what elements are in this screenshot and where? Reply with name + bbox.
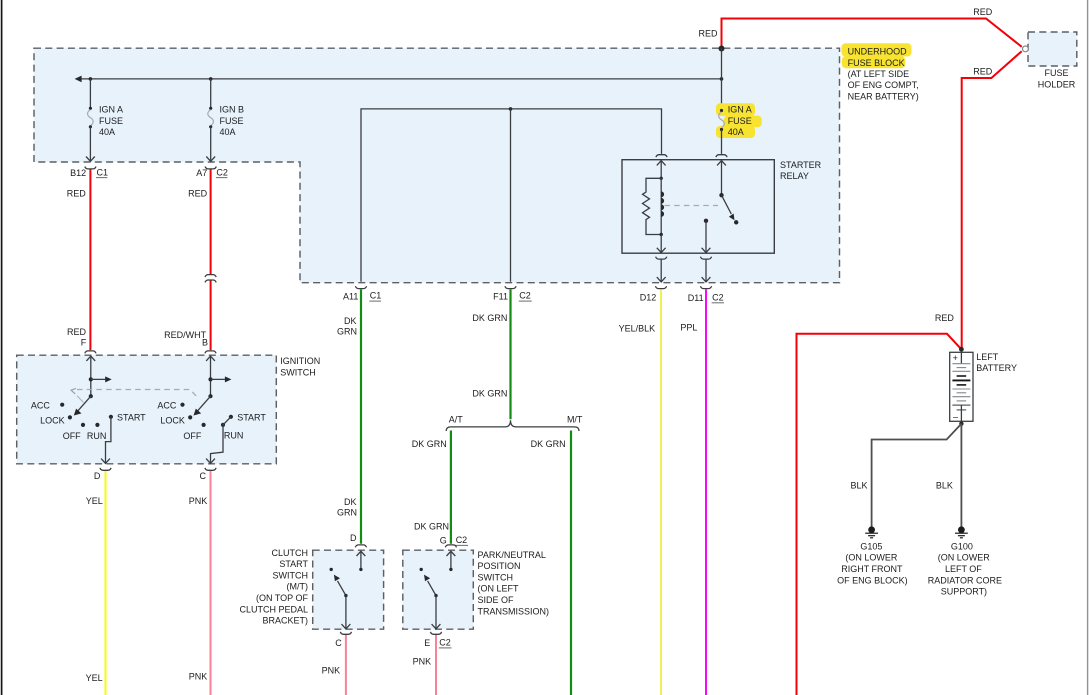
svg-text:PARK/NEUTRAL: PARK/NEUTRAL	[478, 550, 546, 560]
arrowhead at left end of bus	[75, 76, 82, 83]
svg-text:LEFT OF: LEFT OF	[945, 564, 982, 574]
wire RED/WHT from A7 to ignition switch B	[210, 169, 212, 274]
connector A7 C2 at fuse block edge	[196, 167, 228, 179]
contact OFF (pole 2)	[202, 423, 206, 427]
svg-text:CLUTCH: CLUTCH	[271, 548, 308, 558]
contact RUN (pole 2)	[221, 423, 225, 427]
svg-text:YEL: YEL	[86, 496, 103, 506]
fuse IGN B 40A	[206, 79, 244, 161]
svg-text:(ON TOP OF: (ON TOP OF	[256, 593, 309, 603]
svg-text:C2: C2	[456, 535, 468, 545]
svg-text:M/T: M/T	[567, 414, 583, 424]
svg-text:PNK: PNK	[413, 657, 432, 667]
ignition switch box	[17, 355, 277, 464]
splice brace A/T vs M/T	[446, 420, 579, 431]
svg-text:A/T: A/T	[449, 414, 464, 424]
left pole feed dot and arrow	[89, 377, 93, 381]
relay coil branch terminal arrow	[657, 161, 666, 166]
battery plus terminal stem	[960, 352, 962, 363]
relay switch pivot dot	[719, 193, 723, 197]
relay coil winding	[660, 178, 662, 234]
svg-text:PNK: PNK	[322, 665, 341, 675]
node dot where RED riser meets fuse block edge	[719, 46, 725, 52]
svg-text:G105: G105	[860, 541, 882, 551]
terminal C of clutch switch	[340, 632, 351, 634]
svg-text:BRACKET): BRACKET)	[262, 616, 308, 626]
contact START (pole 1)	[109, 415, 113, 419]
connector D12 at fuse block edge	[655, 286, 666, 288]
svg-text:D12: D12	[640, 292, 657, 302]
svg-text:LOCK: LOCK	[40, 416, 65, 426]
relay switch terminal arrow	[717, 161, 726, 166]
svg-text:RED: RED	[698, 29, 718, 39]
battery negative junction dot	[959, 422, 963, 426]
battery plates	[952, 363, 970, 365]
ganged linkage (dashed)	[77, 390, 199, 399]
svg-text:START: START	[279, 559, 308, 569]
battery minus stem	[960, 405, 962, 424]
svg-text:IGNITION: IGNITION	[280, 356, 320, 366]
connector A11 C1 at fuse block edge	[355, 286, 366, 288]
svg-text:A7: A7	[196, 168, 207, 178]
svg-text:SWITCH: SWITCH	[273, 570, 309, 580]
svg-text:RIGHT FRONT: RIGHT FRONT	[841, 564, 903, 574]
wire PNK from C	[210, 471, 212, 695]
junction dot coil bottom	[660, 233, 663, 236]
svg-text:GRN: GRN	[337, 327, 357, 337]
svg-text:OF ENG BLOCK): OF ENG BLOCK)	[837, 575, 908, 585]
svg-text:PPL: PPL	[680, 322, 697, 332]
wire: RED battery positive to lower circuit	[797, 334, 962, 695]
wire DK GRN from F11 to splice	[509, 289, 511, 419]
svg-text:E: E	[424, 638, 430, 648]
wire: main feed bus inside fuse block	[76, 78, 722, 80]
svg-text:IGN A: IGN A	[99, 105, 123, 115]
svg-text:RED: RED	[188, 188, 208, 198]
contact ACC (pole 2)	[180, 403, 184, 407]
svg-text:B: B	[202, 338, 208, 348]
svg-text:ACC: ACC	[31, 401, 51, 411]
svg-text:40A: 40A	[220, 127, 236, 137]
page right border	[1087, 0, 1089, 695]
contact LOCK (pole 2)	[188, 415, 192, 419]
page left border	[1, 0, 3, 695]
svg-text:40A: 40A	[728, 127, 744, 137]
svg-text:DK GRN: DK GRN	[472, 388, 507, 398]
starter relay box	[622, 160, 774, 254]
svg-text:FUSE: FUSE	[99, 116, 123, 126]
svg-text:RED: RED	[973, 7, 993, 17]
connector B12 C1 at fuse block edge	[70, 167, 108, 179]
svg-text:D: D	[350, 533, 357, 543]
svg-text:IGN B: IGN B	[220, 105, 245, 115]
relay switch moving contact dot	[734, 220, 738, 224]
relay switch output	[705, 221, 707, 253]
svg-text:LOCK: LOCK	[160, 416, 185, 426]
junction dot bus / IGN A fuse tap	[89, 77, 93, 81]
svg-text:YEL/BLK: YEL/BLK	[619, 323, 656, 333]
wire YEL from D	[105, 471, 107, 695]
svg-text:G100: G100	[951, 541, 973, 551]
svg-text:FUSE: FUSE	[728, 116, 752, 126]
wire PNK from park/neutral switch	[435, 635, 437, 695]
resistor (parallel with coil)	[643, 178, 662, 234]
connector cups below relay box	[656, 257, 667, 259]
fuse IGN A 40A (relay feed, highlighted)	[716, 103, 762, 154]
svg-text:C2: C2	[216, 167, 228, 177]
connector F11 C2 at fuse block edge	[505, 286, 516, 288]
svg-text:RED: RED	[935, 313, 955, 323]
svg-text:F11: F11	[493, 291, 508, 301]
svg-text:HOLDER: HOLDER	[1038, 80, 1076, 90]
label UNDERHOOD FUSE BLOCK (highlighted)	[842, 43, 912, 56]
svg-text:BLK: BLK	[936, 480, 953, 490]
svg-text:NEAR BATTERY): NEAR BATTERY)	[848, 91, 919, 101]
wire DK GRN A/T branch to park/neutral switch	[450, 431, 452, 544]
mechanical linkage (dashed) coil to blade	[665, 205, 719, 207]
svg-text:RELAY: RELAY	[780, 171, 809, 181]
fuse IGN A 40A (left)	[86, 79, 123, 161]
svg-text:OFF: OFF	[183, 431, 201, 441]
terminal C exit	[205, 468, 216, 470]
park/neutral switch output	[435, 596, 437, 629]
junction dot bus / IGN B fuse tap	[209, 77, 213, 81]
wire BLK to G100	[960, 424, 962, 527]
svg-text:F: F	[81, 338, 87, 348]
battery positive junction dot	[959, 347, 964, 352]
junction dot coil feed / F11 drop	[509, 107, 513, 111]
contact ACC (pole 1)	[60, 403, 64, 407]
ground G105	[865, 526, 878, 537]
ground G100	[955, 526, 968, 537]
junction dot bus / IGN A(relay) fuse tap	[720, 77, 724, 81]
svg-text:START: START	[237, 412, 266, 422]
svg-text:C2: C2	[519, 291, 531, 301]
svg-text:TRANSMISSION): TRANSMISSION)	[478, 606, 550, 616]
svg-text:BATTERY: BATTERY	[976, 363, 1017, 373]
right output START+RUN to C	[211, 417, 231, 463]
wire PNK from clutch switch	[345, 635, 347, 695]
svg-text:BLK: BLK	[850, 480, 867, 490]
svg-text:B12: B12	[70, 168, 86, 178]
svg-text:–: –	[953, 412, 958, 422]
svg-text:40A: 40A	[99, 127, 115, 137]
svg-text:PNK: PNK	[189, 672, 208, 682]
fuse holder connector pin circle	[1023, 46, 1029, 52]
svg-text:D: D	[94, 471, 101, 481]
wire: F11 drop	[510, 109, 512, 282]
svg-text:A11: A11	[343, 291, 358, 301]
left pole pivot dot	[89, 394, 93, 398]
wire DK GRN from A11 to clutch switch	[360, 289, 362, 543]
svg-text:C2: C2	[712, 292, 724, 302]
svg-text:(AT LEFT SIDE: (AT LEFT SIDE	[848, 69, 910, 79]
wire RED from B12 to ignition switch F	[89, 169, 91, 350]
svg-text:ACC: ACC	[157, 401, 177, 411]
svg-text:+: +	[953, 353, 958, 363]
terminal D exit	[100, 468, 111, 470]
clutch switch output	[345, 596, 347, 629]
svg-text:UNDERHOOD: UNDERHOOD	[848, 47, 908, 57]
wire: RED battery feed riser above fuse block	[722, 19, 1022, 48]
svg-text:C2: C2	[439, 638, 451, 648]
left battery box	[950, 352, 973, 421]
svg-text:FUSE: FUSE	[220, 116, 244, 126]
connector D11 C2 at fuse block edge	[700, 286, 711, 288]
svg-text:DK GRN: DK GRN	[531, 439, 566, 449]
svg-text:DK GRN: DK GRN	[472, 313, 507, 323]
svg-text:RED/WHT: RED/WHT	[164, 330, 206, 340]
svg-text:RED: RED	[973, 66, 993, 76]
wire: RED from fuse holder down right side	[962, 51, 1022, 349]
connector hat at relay terminal 30	[716, 155, 727, 157]
svg-text:SWITCH: SWITCH	[478, 572, 514, 582]
svg-text:G: G	[440, 535, 447, 545]
svg-text:RED: RED	[67, 188, 87, 198]
svg-text:RUN: RUN	[224, 430, 244, 440]
svg-text:RADIATOR CORE: RADIATOR CORE	[928, 575, 1002, 585]
svg-text:FUSE: FUSE	[1044, 68, 1068, 78]
right blade to LOCK	[197, 396, 210, 411]
wire DK GRN M/T branch	[570, 431, 572, 695]
right pole feed dot and arrow	[208, 377, 212, 381]
svg-text:STARTER: STARTER	[780, 160, 822, 170]
terminal E C2 of park/neutral switch	[430, 632, 441, 634]
svg-text:C1: C1	[97, 167, 109, 177]
svg-text:GRN: GRN	[337, 507, 357, 517]
park/neutral switch blade	[428, 581, 436, 596]
wire PPL from D11	[705, 289, 707, 695]
wire YEL/BLK from D12	[660, 289, 662, 695]
svg-text:(ON LEFT: (ON LEFT	[478, 584, 520, 594]
clutch switch blade	[338, 581, 346, 596]
left output from START to D	[106, 417, 111, 463]
coil output to relay edge	[660, 235, 662, 253]
svg-text:POSITION: POSITION	[478, 561, 521, 571]
wire: relay coil feed (horizontal)	[361, 109, 662, 282]
svg-text:OF ENG COMPT,: OF ENG COMPT,	[848, 80, 919, 90]
svg-text:PNK: PNK	[189, 496, 208, 506]
svg-text:IGN A: IGN A	[728, 105, 752, 115]
relay fixed contact dot	[704, 219, 708, 223]
svg-text:(ON LOWER: (ON LOWER	[845, 553, 898, 563]
svg-text:LEFT: LEFT	[976, 352, 999, 362]
wire from node down to bus	[721, 49, 723, 111]
relay switch blade (normally open)	[722, 195, 732, 214]
connector hat at relay terminal 86	[656, 155, 667, 157]
svg-text:DK GRN: DK GRN	[412, 439, 447, 449]
svg-text:DK: DK	[344, 316, 357, 326]
svg-text:CLUTCH PEDAL: CLUTCH PEDAL	[239, 604, 308, 614]
svg-text:DK: DK	[344, 497, 357, 507]
contact START (pole 2)	[229, 415, 233, 419]
park/neutral open contact	[420, 568, 423, 571]
right pole pivot dot	[208, 394, 212, 398]
svg-text:C: C	[200, 471, 207, 481]
svg-text:C1: C1	[370, 291, 382, 301]
junction dot coil top	[660, 177, 663, 180]
wires relay outputs to fuse block edge	[660, 259, 662, 282]
clutch switch open contact	[330, 568, 333, 571]
svg-text:SUPPORT): SUPPORT)	[941, 587, 987, 597]
svg-text:SIDE OF: SIDE OF	[478, 595, 515, 605]
svg-text:YEL: YEL	[86, 673, 103, 683]
svg-text:START: START	[117, 412, 146, 422]
underhood fuse block (blue L-shaped region)	[34, 48, 840, 283]
svg-text:C: C	[335, 638, 342, 648]
contact LOCK (pole 1)	[68, 415, 72, 419]
park/neutral position switch box	[403, 550, 474, 629]
svg-text:(M/T): (M/T)	[287, 582, 309, 592]
svg-text:DK GRN: DK GRN	[414, 521, 449, 531]
inline connector break on RED/WHT wire	[205, 275, 216, 277]
contact OFF (pole 1)	[81, 423, 85, 427]
svg-text:FUSE BLOCK: FUSE BLOCK	[848, 58, 905, 68]
wire BLK to G105	[872, 424, 962, 527]
contact RUN (pole 1)	[95, 423, 99, 427]
fuse holder box	[1028, 32, 1077, 66]
left blade to LOCK	[78, 396, 91, 411]
svg-text:D11: D11	[688, 293, 704, 303]
svg-text:RUN: RUN	[87, 431, 107, 441]
clutch start switch box	[313, 550, 384, 629]
svg-text:RED: RED	[67, 327, 87, 337]
svg-text:(ON LOWER: (ON LOWER	[938, 553, 991, 563]
svg-text:OFF: OFF	[63, 431, 81, 441]
svg-text:SWITCH: SWITCH	[280, 367, 316, 377]
